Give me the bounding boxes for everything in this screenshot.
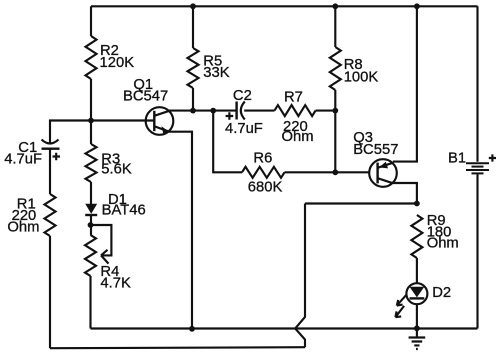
wire left vertical top (rail to R2) [90,6,92,36]
svg-text:Ohm: Ohm [427,236,459,252]
capacitor C2 plus [226,112,234,120]
capacitor C1 plus [53,153,61,160]
battery B1 plate long top [466,162,489,164]
battery B1 plate short 2 [472,172,484,174]
wire battery bottom lead [476,174,478,328]
svg-text:100K: 100K [344,69,379,85]
svg-text:5.6K: 5.6K [101,161,132,177]
LED D2 cathode bar [410,297,425,299]
wire D2 to ground rail [416,304,418,329]
LED D2 emission arrow 2 [395,306,404,317]
transistor Q3 base bar [376,163,378,184]
node top rail / R5 [190,3,196,9]
wire Q1 collector to C2 [169,110,237,112]
wire D1 to R4 node [90,215,92,235]
node collector / R5 [190,108,196,114]
svg-text:R6: R6 [253,150,272,166]
transistor Q3 circle [369,159,397,187]
transistor Q1 emitter arrowhead [162,126,169,134]
svg-text:Ohm: Ohm [282,129,314,145]
wire C2 branch down to R6 [213,111,242,173]
svg-text:120K: 120K [100,55,135,71]
resistor R1 220 Ohm [45,194,56,236]
LED D2 emission arrow 1 [397,294,407,305]
svg-text:33K: 33K [203,65,229,81]
svg-text:4.7K: 4.7K [100,276,131,292]
capacitor C1 straight plate [42,147,60,149]
wire Q1 emitter run [169,132,193,329]
wire R8 vertical top [334,6,336,47]
diode D1 BAT46 triangle [85,204,97,214]
resistor R4 4.7K (pot) [85,235,96,276]
wire top rail [91,5,478,7]
node R7 / R8 [332,108,338,114]
wire Q3 emitter to top rail [393,6,417,161]
wire battery top lead [476,6,478,162]
capacitor C1 curved plate [42,140,59,144]
svg-text:R7: R7 [284,90,303,106]
svg-text:D2: D2 [432,285,451,301]
R4 wiper arrowhead [101,250,109,264]
R4 wiper arm [91,225,112,255]
wire R4 bottom lead [89,276,91,329]
wire R9 bottom to D2 [416,258,418,284]
node top rail / Q3 emitter [414,3,420,9]
wire collector node to crossover [305,202,417,204]
battery B1 plate long 2 [466,169,489,171]
wire R1 bottom lead [49,236,51,348]
transistor Q1 collector stroke [154,111,169,116]
node collector / C2 branch [210,108,216,114]
svg-text:4.7uF: 4.7uF [4,152,42,168]
resistor R5 33K [188,48,199,88]
resistor R3 5.6K [86,144,97,182]
node top rail / R8 [332,3,338,9]
wire R6 to Q3 base [285,171,370,173]
ground symbol [409,329,426,350]
LED D2 triangle [410,287,425,298]
wire R2 bottom to base junction [90,79,92,121]
transistor Q1 base bar [153,111,155,131]
wire R5 bottom lead [192,88,194,111]
resistor R7 220 Ohm [275,105,316,116]
transistor Q3 emitter arrowhead [379,162,388,169]
wire R5 vertical [192,6,194,48]
battery B1 plus [489,154,496,161]
node Q3 collector / R9 [414,201,420,207]
wire R7 to R8 node [316,110,336,112]
battery B1 plate short 1 [472,166,484,168]
node base junction [88,118,94,124]
capacitor C2 straight plate [235,102,237,120]
diode D1 cathode bar [85,214,97,216]
svg-text:680K: 680K [248,180,283,196]
node D1 / R4 [88,222,94,228]
node D2 / ground rail [414,325,420,331]
transistor Q1 emitter stroke [154,126,169,131]
svg-text:4.7uF: 4.7uF [225,121,263,137]
svg-text:Ohm: Ohm [7,220,39,236]
wire outer bottom rail [50,347,305,348]
LED D2 circle [406,283,427,304]
svg-text:B1: B1 [448,150,466,166]
wire base junction to R3 [90,121,92,145]
resistor R2 120K [86,36,97,79]
resistor R6 680K [242,167,285,178]
node emitter / ground rail [189,326,195,332]
wire C1 top lead + base wire [50,121,154,144]
transistor Q1 circle [146,107,174,135]
capacitor C2 curved plate [241,102,245,120]
resistor R8 100K [330,47,341,90]
wire Q3 collector run [393,183,417,204]
wire R8 bottom to node [334,90,336,172]
svg-text:BAT46: BAT46 [102,203,146,219]
wire inner ground rail [91,327,478,329]
wire R3 to D1 [90,182,92,204]
transistor Q3 collector stroke [378,178,393,183]
wire C2 to R7 [244,110,274,112]
wire C1 bottom to R1 [49,149,51,194]
wire crossover vertical with hop [295,204,305,348]
svg-text:BC547: BC547 [123,89,168,105]
svg-text:C2: C2 [233,88,252,104]
svg-text:BC557: BC557 [353,142,398,158]
resistor R9 180 Ohm [411,215,422,258]
node R6 / R8 / Q3 base [332,169,338,175]
transistor Q3 emitter stroke [378,163,393,168]
